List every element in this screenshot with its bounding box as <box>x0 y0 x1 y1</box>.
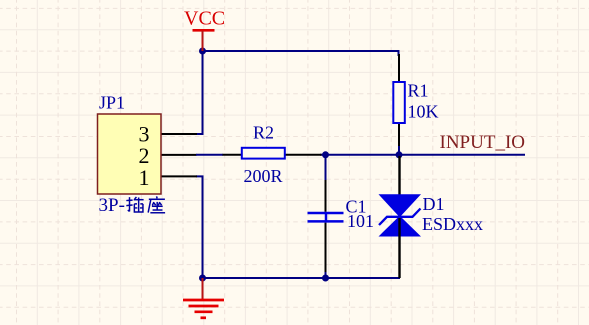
svg-text:ESDxxx: ESDxxx <box>422 214 483 234</box>
wire bottom ground rail <box>203 277 401 279</box>
junction node ground <box>199 275 206 282</box>
resistor R2 body <box>242 148 285 159</box>
svg-text:10K: 10K <box>408 102 439 122</box>
pin C1 top <box>325 180 327 212</box>
svg-text:INPUT_IO: INPUT_IO <box>440 132 526 153</box>
svg-text:200R: 200R <box>244 166 283 186</box>
power symbol VCC bar <box>193 30 215 51</box>
ground symbol <box>183 278 224 318</box>
wire JP1 pin1 down to ground node (left vertical bottom) <box>196 176 203 278</box>
wire R1 bottom to INPUT_IO node <box>398 144 400 155</box>
diode D1 TVS top triangle <box>379 194 422 217</box>
svg-text:3P-: 3P- <box>99 195 125 216</box>
junction node C1 bottom <box>322 275 329 282</box>
pin JP1 pin1 stub <box>161 175 197 177</box>
diode D1 zener bar <box>379 209 421 226</box>
pin C1 bottom <box>325 223 327 272</box>
pin JP1 pin3 stub <box>161 133 197 135</box>
svg-text:R2: R2 <box>253 123 274 143</box>
pin JP1 pin2 stub <box>161 154 197 156</box>
wire JP1 pin2 to R2 <box>196 154 223 156</box>
pin R1 bottom <box>398 123 400 146</box>
capacitor C1 plates <box>308 213 344 221</box>
wire net INPUT_IO horizontal <box>320 154 525 156</box>
wire VCC junction to R1 top (top horizontal) <box>203 51 399 56</box>
value label 3P-insert-socket (3P-插座) <box>99 195 166 216</box>
junction node R1/D1 <box>396 151 403 158</box>
wire C1 bottom to bottom rail <box>325 270 327 278</box>
wire INPUT_IO node down to C1 top <box>325 155 327 182</box>
svg-text:D1: D1 <box>423 194 445 214</box>
svg-text:1: 1 <box>139 165 150 190</box>
svg-text:R1: R1 <box>408 81 429 101</box>
wire JP1 pin3 up to VCC node (left vertical top) <box>196 51 203 134</box>
pin R2 right <box>285 154 322 156</box>
diode D1 TVS bottom triangle <box>379 216 422 237</box>
svg-text:VCC: VCC <box>184 8 225 30</box>
junction node R2/C1 <box>322 151 329 158</box>
pin R1 top <box>398 54 400 82</box>
resistor R1 body <box>393 82 405 123</box>
svg-text:101: 101 <box>347 211 374 231</box>
junction node VCC <box>199 48 206 55</box>
pin D1 bottom <box>398 217 400 279</box>
pin D1 top <box>398 156 400 218</box>
svg-text:JP1: JP1 <box>99 93 125 113</box>
pin R2 left <box>223 154 243 156</box>
connector JP1 body <box>98 114 162 194</box>
